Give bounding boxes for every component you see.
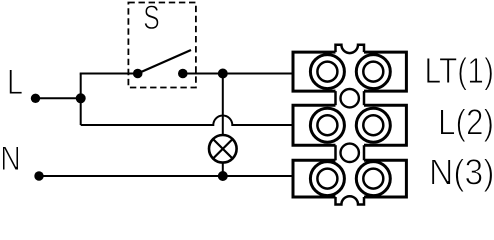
- wire N feed: [39, 175, 292, 177]
- terminal block LT(1): [293, 45, 406, 91]
- wire switch output: [183, 73, 223, 75]
- neck and screw hole between LT(1) and L(2): [336, 89, 365, 107]
- wire lamp drop (vertical): [222, 74, 224, 177]
- wire vertical branch at L junction: [80, 74, 82, 126]
- switch S enclosure (dashed): [128, 3, 196, 88]
- svg-text:LT(1): LT(1): [425, 50, 494, 91]
- terminal block N(3): [293, 160, 406, 204]
- lamp: [209, 135, 237, 163]
- node L: [7, 63, 23, 102]
- label S: [143, 0, 160, 37]
- label N(3): [429, 152, 494, 193]
- svg-text:L: L: [7, 63, 23, 102]
- svg-text:N: N: [0, 140, 21, 178]
- junction lamp to N: [218, 171, 228, 181]
- junction L branch: [76, 93, 86, 103]
- wire L(2) with hop over lamp drop: [81, 116, 292, 126]
- svg-text:S: S: [143, 0, 160, 37]
- label LT(1): [425, 50, 494, 91]
- svg-text:L(2): L(2): [438, 101, 494, 142]
- node N: [0, 140, 21, 178]
- terminal dot L: [31, 94, 40, 103]
- label L(2): [438, 101, 494, 142]
- switch S contacts and blade: [133, 50, 191, 78]
- terminal block L(2): [293, 105, 406, 145]
- wire L feed: [36, 97, 81, 99]
- neck and screw hole between L(2) and N(3): [336, 144, 365, 162]
- wire to terminal LT(1): [223, 73, 292, 75]
- wire to switch input: [80, 73, 138, 75]
- svg-text:N(3): N(3): [429, 152, 494, 193]
- junction lamp tap: [218, 69, 228, 79]
- terminal dot N: [34, 171, 43, 180]
